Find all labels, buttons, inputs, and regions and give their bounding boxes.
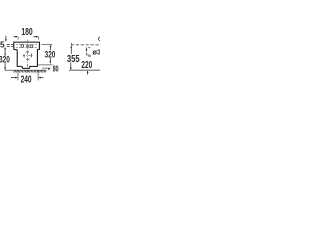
dim 240: right extension line	[37, 71, 39, 81]
label dash near edge	[88, 47, 90, 49]
dim 5: down arrow	[5, 36, 7, 42]
dim 320 right: down arrow	[49, 58, 51, 64]
floor line left part	[5, 69, 47, 71]
dim 355: up arrow	[70, 43, 72, 54]
svg-text:ø35: ø35	[92, 47, 100, 56]
floor line right part	[69, 69, 100, 71]
svg-text:180: 180	[21, 27, 33, 38]
dim 320 left: down arrow to floor	[4, 63, 6, 70]
dim 240: right arrow	[38, 77, 43, 79]
small centre hole circle in tank	[26, 45, 28, 47]
dim line 180 right segment with arrow	[33, 36, 38, 40]
dim 220: top down-arrow from axis	[86, 48, 88, 52]
vertical centre line	[27, 40, 29, 73]
dim line 180 left segment with arrow	[13, 36, 18, 40]
fixture outline: top tank bar	[14, 42, 40, 50]
tank hole circle left	[21, 45, 24, 48]
leader L mark	[86, 52, 88, 55]
svg-text:220: 220	[81, 60, 92, 71]
svg-text:355: 355	[67, 54, 80, 65]
extension line upper (seat level)	[38, 64, 53, 66]
dim 240: left arrow	[11, 77, 18, 79]
drain circle with dashed stroke	[24, 52, 32, 60]
dim 320 right: up arrow	[50, 45, 52, 51]
fixture outline: body sides and bottom with waste notch	[17, 49, 37, 68]
dim 320 right: extension line from tank	[41, 44, 52, 46]
dim 355: down arrow to floor	[70, 62, 72, 70]
extension line lower	[42, 67, 50, 69]
side view: dashed inlet axis	[71, 44, 100, 46]
dim 240: left extension line	[17, 71, 19, 81]
dim 5: up arrow	[4, 47, 6, 56]
dim 320 left: arrowhead above text	[4, 53, 6, 56]
dim 220: bottom up-arrow at floor	[87, 70, 89, 74]
drain circle horizontal centre line	[23, 55, 33, 57]
supply stub dashes left of tank	[7, 44, 14, 46]
svg-text:80: 80	[53, 63, 59, 73]
floor hatching	[14, 70, 47, 72]
hidden supply pipe dashed lines inside tank	[16, 45, 38, 48]
svg-text:240: 240	[21, 75, 32, 86]
small down arrow below lower line	[48, 68, 50, 70]
partial circle glyph at top right corner	[98, 37, 102, 41]
tank hole circle right	[30, 45, 33, 48]
small circle marker	[89, 55, 91, 57]
svg-text:5: 5	[0, 40, 5, 50]
